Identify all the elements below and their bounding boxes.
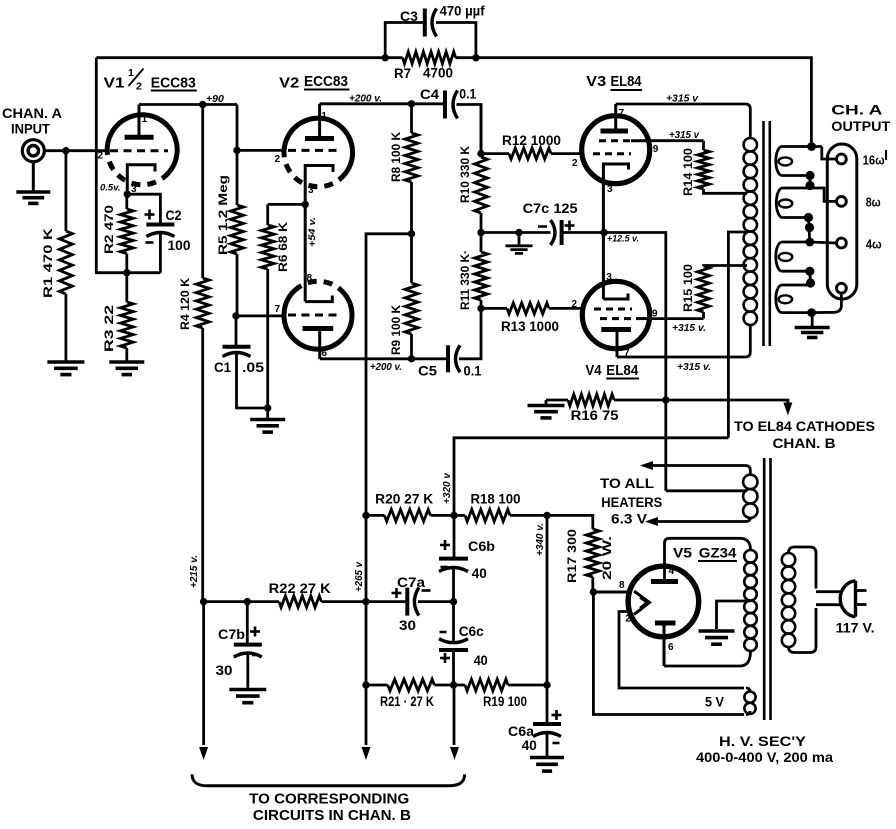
node V2a grid junction: [233, 147, 240, 154]
svg-text:V3: V3: [586, 74, 606, 90]
label HV secondary: [696, 733, 834, 765]
svg-text:16ω: 16ω: [863, 153, 885, 168]
node sec2-sec3 link: [804, 213, 814, 242]
node V4 grid junction: [477, 305, 484, 312]
svg-text:4ω: 4ω: [866, 237, 882, 252]
svg-text:9: 9: [653, 144, 659, 155]
V3 plate pin 7: [601, 104, 629, 131]
V1 grid (dashed): [98, 151, 169, 162]
transformer T1 primary winding: [744, 138, 757, 325]
svg-text:40: 40: [522, 737, 537, 753]
svg-text:R3 22: R3 22: [102, 305, 116, 352]
capacitor C6a 40 (reservoir): [508, 515, 562, 756]
svg-text:H. V. SEC'Y: H. V. SEC'Y: [719, 733, 807, 749]
ground at grid-return: [506, 233, 533, 254]
svg-text:R1 470 K: R1 470 K: [41, 228, 55, 298]
wire V2a plate +200v bus: [320, 102, 445, 105]
svg-text:TO EL84 CATHODES: TO EL84 CATHODES: [734, 419, 875, 434]
node +215 junction: [200, 598, 207, 605]
svg-text:C6c: C6c: [459, 623, 484, 639]
resistor R5 1.2 Meg: [216, 150, 244, 316]
svg-text:C6b: C6b: [468, 538, 495, 554]
node C1/R6 ground junction: [264, 404, 271, 411]
svg-text:2: 2: [98, 151, 104, 162]
V5 filament: [634, 591, 650, 615]
resistor R21 27K: [366, 679, 454, 709]
svg-text:R4 120 K: R4 120 K: [178, 278, 192, 330]
svg-text:C4: C4: [420, 86, 439, 102]
terminal common: [837, 283, 847, 293]
svg-text:+315 v.: +315 v.: [672, 323, 706, 334]
node R9 bottom: [408, 355, 415, 362]
svg-text:+54 v.: +54 v.: [307, 217, 318, 247]
svg-text:R17 300: R17 300: [565, 529, 579, 583]
node R8 top: [408, 100, 415, 107]
svg-text:V2: V2: [279, 76, 299, 92]
resistor R4 120K: [178, 278, 209, 330]
svg-text:R7: R7: [394, 66, 411, 81]
V5 pin 8 wire: [593, 580, 629, 592]
svg-text:CIRCUITS IN CHAN. B: CIRCUITS IN CHAN. B: [253, 808, 411, 824]
node 4 ohm tap: [805, 238, 814, 247]
node R8/R9 midpoint: [408, 230, 415, 237]
svg-text:.05: .05: [242, 359, 264, 375]
svg-text:+315 v: +315 v: [669, 130, 700, 141]
svg-text:R9 100 K: R9 100 K: [389, 305, 403, 355]
V3 cathode pin 3: [603, 164, 628, 233]
T1 primary center tap wire to B+: [728, 232, 747, 438]
svg-text:+315 v.: +315 v.: [677, 362, 711, 373]
V4 plate pin 7: [601, 330, 631, 360]
capacitor C4 0.1: [420, 86, 481, 154]
HV center tap to ground: [699, 601, 751, 644]
svg-text:+200 v.: +200 v.: [349, 94, 382, 105]
wire to V2 pin 2: [237, 149, 284, 152]
wire +320 line down to arrow (middle): [365, 515, 368, 745]
node R7 left: [382, 54, 389, 61]
wire V4 screen to R15 +315v: [650, 317, 704, 320]
resistor R16 75: [546, 394, 666, 423]
resistor R13 1000: [481, 303, 582, 334]
V2a plate: [305, 104, 334, 139]
node EL84 cathodes: [600, 229, 607, 236]
node R10/R11 junction: [477, 229, 484, 236]
wire B+ from OPT CT down to C6b node: [454, 438, 728, 516]
node +90 junction: [199, 101, 206, 108]
svg-text:7: 7: [275, 304, 281, 315]
resistor R12 1000: [481, 133, 582, 159]
svg-text:V5: V5: [673, 545, 692, 561]
wire +215 line to arrow (left): [202, 602, 205, 745]
tube V2b triode envelope (lower half): [284, 281, 352, 349]
svg-text:7: 7: [619, 108, 625, 119]
ground below C6a: [530, 756, 564, 760]
svg-text:CH. A: CH. A: [831, 103, 882, 118]
capacitor C6c 40: [439, 602, 488, 685]
resistor R7 4700: [385, 52, 476, 81]
wire heater center tap from cathode line: [666, 489, 747, 492]
svg-text:1: 1: [142, 114, 148, 125]
node R2/C2 bottom rail: [123, 269, 130, 276]
ground below secondary: [795, 313, 830, 338]
svg-text:2: 2: [572, 299, 578, 310]
node ground tap: [515, 229, 522, 236]
svg-text:20 W.: 20 W.: [600, 536, 614, 580]
tube V3 EL84 envelope: [582, 116, 650, 184]
svg-text:0.1: 0.1: [464, 363, 482, 379]
svg-text:4700: 4700: [423, 66, 453, 81]
svg-text:R10 330 K: R10 330 K: [458, 146, 472, 203]
svg-text:C1: C1: [214, 359, 231, 375]
node C6b top: [450, 512, 457, 519]
wire V1 plate to +90 node: [139, 103, 237, 106]
T1 secondary section 2 (8 ohm): [776, 188, 836, 218]
heater winding 6.3V: [640, 461, 758, 526]
capacitor C7b 30: [216, 602, 262, 688]
V4 screen grid pin 9: [600, 309, 658, 320]
5V winding: [705, 688, 756, 715]
V2a cathode: [305, 166, 333, 205]
svg-text:CHAN. A: CHAN. A: [2, 106, 62, 121]
wire 4 ohm terminal: [810, 242, 837, 243]
resistor R18 100: [454, 491, 547, 521]
capacitor C2 100 (electrolytic): [127, 194, 190, 273]
svg-text:ECC83: ECC83: [151, 76, 196, 92]
svg-text:HEATERS: HEATERS: [601, 495, 662, 510]
wire grid-return / cathode bypass bus: [481, 231, 551, 234]
svg-text:C7a: C7a: [397, 574, 425, 590]
node V1 cathode junction: [124, 191, 131, 198]
svg-text:TO ALL: TO ALL: [600, 476, 654, 491]
svg-text:117 V.: 117 V.: [836, 620, 875, 636]
resistor R17 300 20W: [565, 529, 614, 592]
feedback wire left vertical + bottom rail: [96, 58, 160, 273]
wire down to arrow chan B (right): [453, 685, 456, 745]
resistor R22 27K: [204, 581, 366, 608]
power transformer primary 117V: [782, 547, 816, 653]
svg-text:C2: C2: [166, 207, 182, 223]
resistor R3 22: [102, 273, 133, 361]
svg-text:3: 3: [606, 272, 612, 283]
HV secondary winding: [664, 538, 757, 666]
capacitor C7a 30: [366, 574, 454, 633]
svg-text:R19 100: R19 100: [483, 694, 527, 709]
node R16/cathode line junction: [662, 396, 669, 403]
label CH. A OUTPUT: [831, 103, 891, 135]
svg-text:TO CORRESPONDING: TO CORRESPONDING: [249, 792, 409, 808]
wire V4 plate to OPT bottom +315v: [617, 324, 750, 357]
svg-text:5 V: 5 V: [705, 695, 724, 710]
svg-text:EL84: EL84: [611, 74, 642, 90]
svg-text:+90: +90: [206, 93, 224, 105]
node R19/R21 junction at C6c bottom: [450, 681, 457, 688]
svg-text:R21 · 27 K: R21 · 27 K: [380, 694, 434, 709]
tube V2a triode envelope: [284, 118, 353, 187]
resistor R10 330K: [458, 105, 488, 233]
svg-text:INPUT: INPUT: [11, 122, 51, 137]
svg-text:2: 2: [136, 81, 142, 93]
label V2 ECC83: [279, 74, 349, 92]
resistor R14 100: [681, 141, 747, 196]
V2b cathode (pin 8) lead from cathodes junction: [305, 204, 332, 301]
svg-text:V1: V1: [104, 76, 125, 92]
node V3 grid junction: [477, 150, 484, 157]
capacitor C6b 40: [439, 515, 495, 601]
svg-text:ECC83: ECC83: [304, 74, 348, 90]
terminal 16 ohm: [837, 150, 887, 168]
svg-text:V4: V4: [586, 363, 602, 379]
capacitor C5 0.1: [418, 308, 482, 378]
ground below C7b: [229, 688, 266, 692]
V4 control grid pin 2: [572, 299, 633, 310]
resistor R19 100: [454, 679, 548, 709]
label V1 1/2 ECC83: [104, 67, 197, 93]
wire top feedback bus: [96, 56, 385, 59]
svg-text:+320 v: +320 v: [442, 472, 453, 504]
svg-text:1: 1: [321, 111, 327, 122]
svg-text:+265 v: +265 v: [354, 561, 365, 592]
wire V2 cathodes junction to R6: [268, 203, 306, 206]
wire long vertical +215v line with R4: [201, 105, 204, 279]
svg-text:8: 8: [619, 580, 625, 591]
label V5 GZ34: [673, 545, 737, 562]
svg-text:R18 100: R18 100: [471, 491, 521, 506]
node sec1-sec2 link: [805, 171, 814, 190]
capacitor C1 .05: [214, 316, 268, 408]
svg-text:6.3 V: 6.3 V: [611, 512, 647, 527]
svg-text:2: 2: [625, 614, 631, 625]
wire to EL84 cathodes chan B with arrow: [666, 400, 875, 451]
V3 screen grid pin 9: [599, 141, 659, 155]
node R19 right / C6a: [543, 681, 550, 688]
V2b grid pin 7 wire from R5/C1 node: [236, 304, 342, 316]
node V5 pin8 junction: [590, 588, 597, 595]
wire top bus to output tap: [476, 58, 812, 147]
svg-text:R8 100 K: R8 100 K: [389, 132, 403, 182]
svg-text:+315 v: +315 v: [666, 94, 699, 105]
wire R5 column from +90 to V2 grid: [236, 105, 239, 151]
node C6a top / R17 junction: [543, 512, 550, 519]
output terminal strip: [827, 144, 857, 299]
svg-text:40: 40: [474, 652, 488, 668]
svg-text:R16 75: R16 75: [571, 408, 620, 423]
V1 cathode: [127, 165, 155, 195]
svg-text:R2 470: R2 470: [102, 205, 116, 254]
resistor R6 68K: [261, 204, 290, 408]
svg-text:R22 27 K: R22 27 K: [269, 581, 331, 596]
ground below R3: [109, 360, 144, 364]
node R7 right: [472, 54, 479, 61]
ground at R16: [528, 400, 565, 418]
V4 cathode pin 3: [603, 233, 628, 300]
svg-text:2: 2: [275, 154, 281, 165]
resistor R1 470K: [41, 151, 72, 361]
svg-text:R14 100: R14 100: [681, 148, 695, 196]
T1 core: [764, 121, 770, 346]
tube V5 GZ34 envelope: [628, 566, 699, 637]
V5 plate pin 4 (top): [651, 566, 678, 582]
label V4 EL84: [586, 363, 640, 379]
wire 16 ohm terminal: [822, 147, 837, 160]
node feedback tap at 16 ohm: [807, 142, 816, 151]
svg-text:2: 2: [572, 158, 578, 169]
tube V1 triode ECC83 envelope: [107, 115, 177, 185]
svg-text:GZ34: GZ34: [699, 545, 737, 561]
svg-text:400-0-400 V, 200 ma: 400-0-400 V, 200 ma: [696, 750, 834, 765]
svg-text:R20 27 K: R20 27 K: [375, 492, 433, 507]
svg-text:470 µµf: 470 µµf: [440, 4, 485, 19]
svg-text:EL84: EL84: [606, 363, 638, 379]
svg-text:0.5v.: 0.5v.: [100, 183, 121, 194]
terminal 4 ohm: [837, 237, 882, 252]
svg-text:R11 330 K·: R11 330 K·: [458, 250, 472, 310]
AC plug 117V: [816, 581, 875, 636]
node R5/C1/V2b-grid junction: [232, 312, 239, 319]
label TO ALL HEATERS 6.3V: [600, 476, 662, 527]
svg-text:+200 v.: +200 v.: [370, 362, 402, 373]
wire pin8 node down to 5V winding return: [593, 592, 744, 715]
resistor R9 100K: [389, 234, 418, 359]
resistor R8 100K: [389, 104, 418, 234]
capacitor C7c 125 (cathode bypass): [523, 201, 604, 245]
node C7b top: [244, 598, 251, 605]
input jack J1 CHAN. A INPUT: [2, 106, 62, 162]
node secondary ground junction: [807, 308, 816, 317]
svg-text:40: 40: [472, 565, 487, 581]
capacitor C3 470uuf: [385, 4, 485, 58]
node sec3-sec4 link: [805, 267, 815, 288]
svg-text:C7c 125: C7c 125: [523, 201, 579, 216]
svg-text:R13 1000: R13 1000: [501, 319, 559, 334]
bracket to corresponding circuits: [192, 774, 465, 785]
node R21 left: [362, 681, 369, 688]
label V3 EL84: [586, 74, 642, 90]
V5 pin 2 wire to 5V winding: [619, 612, 744, 689]
svg-text:6: 6: [668, 642, 674, 653]
label to corresponding circuits chan B: [249, 792, 411, 825]
svg-text:C5: C5: [418, 363, 437, 379]
svg-text:30: 30: [216, 662, 233, 678]
svg-text:100: 100: [168, 237, 191, 253]
svg-text:0.1: 0.1: [459, 86, 476, 102]
wire V3 plate to OPT top +315v: [616, 104, 751, 138]
T1 secondary section 1 (16 ohm): [776, 147, 822, 176]
resistor R20 27K: [366, 492, 454, 522]
V5 plate pin 6 (bottom): [655, 623, 676, 666]
node input/R1 junction: [62, 147, 69, 154]
node C7a right: [450, 598, 457, 605]
svg-text:R15 100: R15 100: [681, 264, 695, 312]
svg-text:C3: C3: [400, 8, 418, 24]
resistor R2 470: [102, 194, 133, 273]
svg-text:+340 v.: +340 v.: [535, 523, 546, 556]
svg-text:+12.5 v.: +12.5 v.: [607, 234, 639, 245]
resistor R11 330K: [458, 233, 488, 311]
svg-text:8: 8: [307, 273, 313, 284]
wire cathodes to R16 junction: [604, 233, 666, 491]
resistor R15 100: [681, 264, 747, 319]
wire midpoint to +320 feed line: [366, 234, 412, 516]
wire V2b plate +200v lower bus: [320, 357, 448, 360]
wire to R17: [547, 515, 593, 529]
svg-text:C7b: C7b: [218, 626, 245, 642]
ground below R1: [47, 360, 84, 364]
svg-text:OUTPUT: OUTPUT: [831, 119, 891, 134]
svg-text:R6 68 K: R6 68 K: [276, 222, 290, 272]
V3 control grid pin 2: [572, 154, 631, 169]
svg-text:R12 1000: R12 1000: [502, 133, 561, 148]
ground below C1/R6: [250, 418, 285, 422]
ground below input jack: [16, 162, 50, 204]
tube V4 EL84 envelope: [582, 281, 649, 348]
T1 secondary section 4 (common): [776, 285, 812, 313]
svg-text:+215 v.: +215 v.: [189, 555, 200, 588]
svg-text:8ω: 8ω: [866, 195, 881, 210]
wire common terminal to ground junction: [812, 293, 842, 313]
svg-text:1: 1: [128, 67, 134, 79]
svg-text:R5 1.2 Meg: R5 1.2 Meg: [216, 175, 230, 255]
V2b plate (pin 6): [303, 329, 334, 360]
svg-text:3: 3: [607, 184, 613, 195]
svg-text:30: 30: [399, 617, 416, 633]
V1 plate: [125, 105, 154, 138]
T1 secondary section 3 (4 ohm): [776, 242, 810, 271]
wire input jack to V1 grid: [44, 149, 108, 152]
svg-text:4: 4: [669, 566, 675, 577]
terminal 8 ohm: [837, 195, 881, 210]
wire V3 screen to R14 +315v: [650, 139, 704, 142]
node C7a left / +265 junction: [362, 598, 369, 605]
V2a grid (dashed): [275, 150, 343, 165]
svg-text:6: 6: [321, 348, 327, 359]
node R20 left: [362, 512, 369, 519]
svg-text:CHAN. B: CHAN. B: [773, 436, 836, 451]
svg-text:3: 3: [308, 185, 314, 196]
power transformer core: [764, 458, 770, 720]
node V2 cathodes junction: [302, 201, 309, 208]
